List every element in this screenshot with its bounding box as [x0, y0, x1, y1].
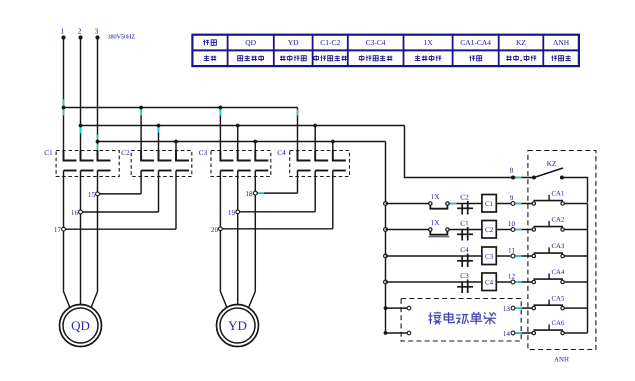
wire link node16 to C2 pole2	[81, 211, 159, 213]
wire C2 pole2 output drop	[158, 177, 160, 213]
svg-text:KZ: KZ	[547, 160, 557, 168]
limit switch 1X row1	[429, 193, 450, 209]
contactor C2 pole1 main contact	[141, 151, 154, 177]
wire row5 rail stub	[386, 307, 408, 309]
auxiliary NC contact C1 row2	[457, 220, 473, 241]
wire C3 pole3 output to node 18 and motor YD	[249, 177, 256, 308]
wire C1 pole2 output to node 16 and motor QD	[80, 177, 82, 305]
wire button CA3 to right rail	[564, 255, 587, 257]
junction left rail row 4	[384, 280, 388, 284]
wire bus L2	[81, 125, 405, 127]
node 15	[88, 191, 99, 199]
svg-text:CA3: CA3	[552, 243, 565, 250]
wire tap bus L2 to C4 pole2	[314, 126, 316, 161]
button box ANH dashed enclosure	[528, 151, 596, 350]
wire C4 pole3 output drop	[332, 177, 334, 229]
wire tap bus L3 to C4 pole3	[332, 142, 334, 161]
svg-text:9: 9	[510, 194, 514, 202]
svg-text:12: 12	[508, 273, 516, 281]
motor YD	[217, 305, 259, 347]
wire KZ to right rail	[562, 178, 588, 203]
switch KZ (knife contact)	[532, 160, 564, 180]
auxiliary NC contact C2 row1	[457, 194, 473, 215]
junction L3/C3p3	[253, 140, 257, 144]
wire bus L2 feed to control (drop to node 8 row)	[405, 126, 533, 178]
contactor C4 dashed enclosure	[290, 151, 350, 177]
table cell: hoist motor (Chinese)	[238, 55, 264, 61]
contactor C1 dashed enclosure	[56, 151, 119, 177]
svg-text:KZ: KZ	[516, 38, 526, 47]
svg-text:C1: C1	[460, 220, 469, 228]
svg-text:C4: C4	[277, 149, 286, 157]
svg-text:1X: 1X	[431, 219, 441, 227]
svg-text:16: 16	[71, 209, 79, 217]
table cell: button box (Chinese)	[551, 55, 571, 61]
supply terminal L1	[61, 27, 66, 40]
contactor coil C4	[482, 273, 496, 291]
wire button CA2 to right rail	[564, 229, 587, 231]
node 10	[508, 220, 516, 231]
svg-text:YD: YD	[288, 38, 299, 47]
wire coil C4 to node 12	[496, 281, 532, 283]
wire link node17 to C2 pole3	[64, 228, 177, 230]
node 9	[510, 194, 515, 205]
wire row3 rail to contact C4	[386, 255, 482, 257]
svg-text:2: 2	[78, 27, 82, 36]
wire button CA5 to right rail	[564, 307, 587, 309]
contactor coil C2	[482, 221, 496, 239]
wire tap bus L3 to C2 pole3	[175, 142, 177, 161]
contactor C1 pole3 main contact	[98, 151, 111, 177]
node 12	[508, 273, 516, 284]
contactor C2 dashed enclosure	[131, 151, 192, 177]
wire node 13 to button CA5	[515, 307, 532, 309]
contactor C3 pole1 main contact	[220, 151, 233, 177]
terminal box: connect-to-electric-single-beam dashed enclosure	[401, 299, 521, 342]
svg-text:QD: QD	[245, 38, 256, 47]
wire coil C1 to node 9	[496, 203, 532, 205]
node 14	[503, 330, 515, 338]
limit switch 1X row2	[428, 219, 449, 237]
contactor C1 pole1 main contact	[64, 151, 77, 177]
svg-text:C2: C2	[121, 149, 130, 157]
table cell: travel motor (Chinese)	[280, 55, 306, 61]
table cell: NO, NC (Chinese)	[506, 55, 536, 61]
svg-text:CA4: CA4	[552, 269, 565, 276]
motor QD	[60, 305, 102, 347]
svg-text:C1-C2: C1-C2	[320, 38, 340, 47]
wire row1 rail to limit switch	[386, 203, 429, 205]
svg-text:CA1: CA1	[552, 191, 565, 198]
svg-text:1X: 1X	[423, 38, 433, 47]
svg-text:ANH: ANH	[554, 357, 569, 364]
table cell: push button (Chinese)	[469, 55, 481, 61]
label connect electric single beam (Chinese)	[428, 312, 496, 325]
junction left rail row 2	[384, 228, 388, 232]
junction left rail row 3	[384, 254, 388, 258]
svg-text:C3: C3	[485, 253, 494, 261]
wire tap bus L1 to C2 pole1	[140, 108, 142, 161]
junction L3/C4p3	[331, 140, 335, 144]
svg-text:13: 13	[503, 305, 511, 313]
table header cell: symbol (Chinese)	[203, 40, 216, 46]
svg-text:14: 14	[503, 330, 511, 338]
svg-text:C1: C1	[44, 149, 53, 157]
junction L1/C1p1	[62, 106, 66, 110]
svg-text:380V50HZ: 380V50HZ	[108, 34, 136, 41]
svg-text:C3: C3	[199, 149, 208, 157]
push button CA5	[532, 295, 565, 310]
table cell: limit switch (Chinese)	[415, 55, 442, 61]
contactor C2 pole2 main contact	[159, 151, 172, 177]
svg-text:C2: C2	[485, 226, 494, 234]
node 19	[228, 209, 240, 217]
contactor C4 pole1 main contact	[298, 151, 311, 177]
legend table frame	[192, 35, 579, 66]
contactor C3 pole3 main contact	[255, 151, 268, 177]
contactor coil C3	[482, 247, 496, 265]
svg-text:1X: 1X	[431, 193, 441, 201]
contactor coil C1	[482, 195, 496, 213]
wire bus L3 feed / control left rail	[385, 142, 387, 334]
svg-text:11: 11	[508, 247, 515, 255]
svg-text:CA5: CA5	[552, 295, 565, 302]
wire C3 pole1 output to node 20 and motor YD	[220, 177, 226, 308]
svg-text:CA6: CA6	[552, 320, 565, 327]
supply terminal L2	[78, 27, 83, 40]
svg-text:C3-C4: C3-C4	[366, 38, 386, 47]
svg-text:YD: YD	[228, 318, 247, 333]
svg-text:3: 3	[95, 27, 99, 36]
svg-text:1: 1	[61, 27, 65, 36]
wire tap bus L1 to C3 pole1	[219, 108, 221, 161]
node 13	[503, 305, 515, 313]
junction left rail row 6	[384, 331, 388, 335]
junction L2/C1p2	[79, 124, 83, 128]
push button CA6	[532, 320, 565, 334]
cyan highlight ticks	[64, 100, 523, 334]
wire coil C3 to node 11	[496, 255, 532, 257]
wire link node20 to C4 pole3	[220, 228, 332, 230]
wire node 14 to button CA6	[515, 332, 532, 334]
wire bus L1	[64, 107, 298, 109]
contactor C4 pole2 main contact	[315, 151, 328, 177]
svg-text:15: 15	[88, 191, 96, 199]
svg-text:ANH: ANH	[553, 38, 570, 47]
contactor C3 pole2 main contact	[238, 151, 251, 177]
contactor C3 dashed enclosure	[211, 151, 271, 177]
svg-text:8: 8	[510, 167, 514, 175]
wire C1 pole1 output to node 17 and motor QD	[64, 177, 70, 308]
table cell: AC contactor (Chinese)	[314, 55, 347, 61]
node 11	[508, 247, 515, 258]
wire C4 pole1 output drop	[297, 177, 299, 194]
contactor C2 pole3 main contact	[176, 151, 189, 177]
wire tap bus L2 to C2 pole2	[158, 126, 160, 161]
junction L3/C1p3	[96, 140, 100, 144]
wire phase L1 drop	[63, 38, 65, 161]
terminal circle row5 left	[407, 306, 411, 310]
supply terminal L3	[95, 27, 100, 40]
control right rail	[587, 204, 589, 334]
wire C2 pole1 output drop	[140, 177, 142, 194]
svg-text:QD: QD	[71, 318, 90, 333]
wire row4 rail to contact C3	[386, 281, 482, 283]
wire coil C2 to node 10	[496, 229, 532, 231]
push button CA1	[532, 191, 564, 206]
node 20	[211, 226, 222, 234]
table cell: AC contactor (Chinese)	[359, 55, 392, 61]
wire button CA6 to right rail	[564, 332, 587, 334]
push button CA4	[532, 269, 565, 283]
svg-text:CA1-CA4: CA1-CA4	[460, 38, 491, 47]
wire button CA4 to right rail	[564, 281, 587, 283]
wire C3 pole2 output to node 19 and motor YD	[237, 177, 239, 305]
junction L1/C2p1	[139, 106, 143, 110]
svg-text:C1: C1	[485, 200, 494, 208]
junction L2/C2p2	[157, 124, 161, 128]
wire row2 1X to contact C1	[449, 229, 482, 231]
auxiliary NC contact C3 row4	[457, 272, 473, 293]
wire link node15 to C2 pole1	[98, 193, 142, 195]
wire row1 1X to contact C2	[449, 203, 482, 205]
wire phase L3 drop	[97, 38, 99, 161]
junction L2/C3p2	[236, 124, 240, 128]
svg-text:C3: C3	[460, 272, 469, 280]
wire button CA1 to right rail	[564, 203, 587, 205]
node 16	[71, 209, 82, 217]
wire tap bus L1 to C4 pole1 (corner)	[297, 108, 299, 161]
svg-text:C4: C4	[485, 279, 494, 287]
wire C2 pole3 output drop	[175, 177, 177, 230]
svg-text:CA2: CA2	[552, 217, 565, 224]
contactor C1 pole2 main contact	[81, 151, 94, 177]
table cell: name (Chinese)	[204, 55, 217, 61]
contactor C4 pole3 main contact	[333, 151, 346, 177]
wire link node19 to C4 pole2	[238, 211, 316, 213]
wire phase L2 drop	[80, 38, 82, 161]
node 8	[510, 167, 515, 180]
wire C1 pole3 output to node 15 and motor QD	[91, 177, 97, 308]
wire bus L3	[98, 141, 386, 143]
wire tap bus L3 to C3 pole3	[254, 142, 256, 161]
svg-text:10: 10	[508, 220, 516, 228]
auxiliary NC contact C4 row3	[457, 246, 473, 267]
node 18	[245, 190, 257, 198]
svg-text:C4: C4	[460, 246, 469, 254]
svg-text:20: 20	[211, 226, 219, 234]
svg-text:C2: C2	[460, 194, 469, 202]
svg-text:18: 18	[245, 190, 253, 198]
wire link node18 to C4 pole1	[255, 192, 297, 194]
junction L1/C3p1	[219, 106, 223, 110]
junction left rail row 1	[384, 202, 388, 206]
push button CA2	[532, 217, 565, 232]
node 17	[54, 226, 65, 234]
svg-text:19: 19	[228, 209, 236, 217]
terminal circle row6 left	[407, 331, 411, 335]
wire row6 rail stub	[386, 332, 408, 334]
wire tap bus L2 to C3 pole2	[237, 126, 239, 161]
push button CA3	[532, 243, 565, 258]
junction left rail row 5	[384, 306, 388, 310]
junction L2/C4p2	[313, 124, 317, 128]
wire row2 rail to limit switch	[386, 229, 429, 231]
wire C4 pole2 output drop	[314, 177, 316, 212]
junction L3/C2p3	[174, 140, 178, 144]
svg-text:17: 17	[54, 226, 62, 234]
